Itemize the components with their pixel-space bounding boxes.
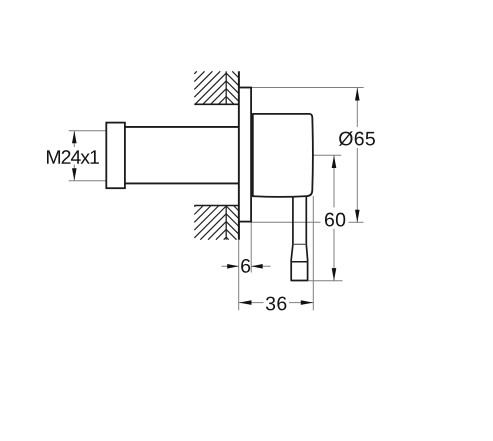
dimension 6 right leader (251, 265, 270, 267)
supply pipe top line (125, 126, 239, 128)
label diameter 65 (339, 131, 375, 145)
dimension 36 arrow right (301, 300, 314, 305)
extension line: body centre for 60 top (313, 154, 341, 156)
wall hatch bottom block (194, 206, 239, 240)
supply pipe bottom line (125, 182, 239, 184)
extension line: body right edge down to 36 dimension (312, 196, 314, 310)
spout body (253, 114, 313, 197)
dimension 36 line left (239, 302, 264, 304)
dimension 60 arrow down (332, 268, 337, 281)
label M24x1 (47, 150, 99, 164)
wall face line (238, 71, 240, 240)
label 6 (241, 259, 250, 273)
dimension 60 line upper (333, 155, 335, 207)
dimension 6 right arrow (251, 264, 263, 269)
extension line: flange top for diameter 65 (239, 87, 364, 89)
extension line: flange right edge down to 6 dimension (250, 222, 252, 273)
wall hole upper edge (194, 103, 239, 105)
connection nut (106, 123, 125, 189)
extension line: M24 thread bottom (69, 180, 107, 182)
dimension diameter-65 line lower (356, 148, 358, 222)
label 36 (266, 297, 286, 311)
wall hatch top block (194, 71, 239, 104)
wall hatch bottom plaster divider (225, 206, 227, 240)
extension line: wall face down to 36 dimension (238, 240, 240, 310)
outlet tube (291, 196, 307, 280)
label 60 (325, 213, 345, 227)
dimension 36 arrow left (239, 300, 252, 305)
dimension 6 left leader (222, 265, 239, 267)
outlet tube joint line (293, 243, 306, 245)
wall hatch top plaster divider (225, 71, 227, 104)
dimension 60 line lower (333, 229, 335, 281)
dimension diameter-65 line upper (356, 88, 358, 127)
dimension M24x1 line upper (73, 131, 75, 147)
wall hole lower edge (194, 205, 239, 207)
extension line: outlet bottom for 60 bottom (308, 280, 342, 282)
dimension 60 arrow up (332, 155, 337, 168)
dimension M24x1 arrow up (72, 131, 77, 143)
dimension 6 left arrow (227, 264, 239, 269)
dimension diameter-65 arrow up (355, 88, 360, 101)
dimension diameter-65 arrow down (355, 210, 360, 223)
wall flange escutcheon (239, 88, 251, 222)
dimension M24x1 line lower (73, 165, 75, 181)
extension line: M24 thread top (69, 130, 107, 132)
outlet aerator line (291, 261, 307, 263)
dimension 36 line right (289, 302, 313, 304)
dimension M24x1 arrow down (72, 168, 77, 180)
extension line: flange bottom for diameter 65 (broken by 60 label) (251, 221, 321, 223)
